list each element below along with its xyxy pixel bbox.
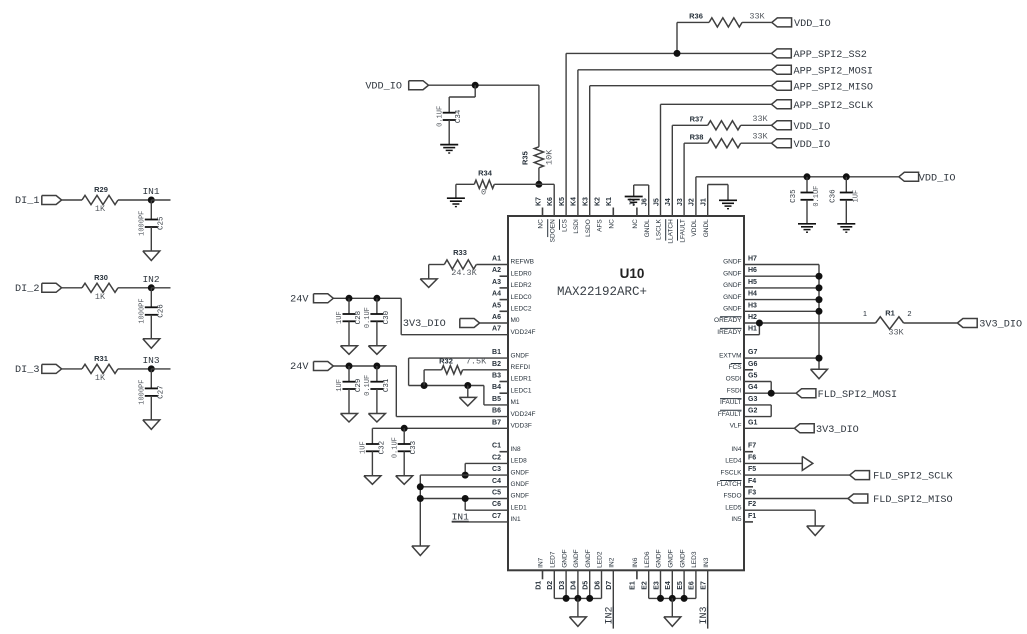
svg-text:D6: D6 (594, 581, 601, 590)
svg-text:F7: F7 (748, 443, 756, 450)
junction E4 (669, 595, 676, 602)
ground (field) C-bus (412, 546, 429, 556)
svg-text:F1: F1 (748, 513, 756, 520)
ground (field) below C26 (143, 315, 160, 349)
svg-text:33K: 33K (752, 132, 768, 142)
wire H7 GNDF (744, 265, 819, 370)
junction C33 (401, 425, 408, 432)
wire D6 down (601, 570, 603, 598)
svg-text:GNDF: GNDF (573, 549, 580, 567)
svg-text:SDOEN: SDOEN (550, 219, 557, 242)
junction C28 (346, 295, 353, 302)
svg-text:3V3_DIO: 3V3_DIO (816, 425, 859, 436)
pin A1 REFWB (492, 256, 534, 266)
svg-text:IN7: IN7 (538, 557, 545, 568)
svg-text:AFS: AFS (597, 219, 604, 232)
flag FLD_SPI2_SCLK (850, 471, 954, 483)
svg-text:1000PF: 1000PF (139, 298, 147, 323)
wire B1 GNDF to gnd net (409, 358, 508, 385)
flag VDD_IO (R38) (772, 139, 831, 151)
svg-text:VDD24F: VDD24F (511, 329, 536, 336)
pin D6 LED2 (594, 551, 603, 590)
pin J4 LLATCH (665, 198, 674, 244)
svg-text:G4: G4 (748, 384, 757, 391)
svg-text:1000PF: 1000PF (139, 211, 147, 236)
wire D2 down (553, 570, 555, 598)
wire G7 EXTVM (744, 357, 819, 359)
svg-text:K1: K1 (606, 197, 613, 206)
svg-text:C2: C2 (492, 454, 501, 461)
wire R36 to SS2 net (676, 22, 678, 53)
flag APP_SPI2_SCLK (772, 100, 874, 112)
svg-text:FLD_SPI2_SCLK: FLD_SPI2_SCLK (873, 472, 953, 483)
ground (field) E group (664, 598, 681, 626)
svg-text:H7: H7 (748, 256, 757, 263)
svg-text:R37: R37 (690, 114, 704, 123)
pin C3 GNDF (492, 466, 529, 476)
svg-text:C36: C36 (829, 189, 837, 203)
wire R31 to node IN3 (118, 368, 151, 370)
svg-text:H5: H5 (748, 279, 757, 286)
pin G3 IFAULT (720, 396, 758, 406)
junction gnd stem (464, 382, 471, 389)
svg-text:H1: H1 (748, 326, 757, 333)
svg-text:MAX22192ARC+: MAX22192ARC+ (557, 285, 647, 299)
wire E2 down (648, 570, 650, 598)
pin K6 SDOEN (547, 197, 556, 242)
pin D5 GNDF (583, 549, 592, 589)
svg-text:GNDF: GNDF (511, 469, 529, 476)
wire E6 down (695, 570, 697, 598)
svg-text:A4: A4 (492, 291, 501, 298)
svg-text:B5: B5 (492, 396, 501, 403)
svg-text:J2: J2 (689, 198, 696, 206)
svg-text:10K: 10K (545, 149, 555, 165)
wire R37 to pin (671, 125, 673, 216)
svg-text:G7: G7 (748, 349, 757, 356)
wire D3 down (565, 570, 567, 598)
svg-text:U10: U10 (620, 266, 645, 281)
svg-text:3V3_DIO: 3V3_DIO (403, 319, 446, 330)
svg-text:E2: E2 (642, 581, 649, 590)
svg-text:FLD_SPI2_MOSI: FLD_SPI2_MOSI (818, 390, 897, 401)
flag FLD_SPI2_MISO (848, 494, 953, 506)
pin C7 IN1 (492, 513, 521, 523)
svg-text:C1: C1 (492, 443, 501, 450)
wire B7 VDD3F (372, 427, 508, 429)
junction D4 (574, 595, 581, 602)
capacitor C26 1000PF (139, 288, 166, 324)
svg-text:G2: G2 (748, 408, 757, 415)
svg-text:C5: C5 (492, 490, 501, 497)
junction OREADY/IREADY (756, 320, 763, 327)
wire APP_SPI2_SS2 (566, 53, 771, 216)
pin A6 M0 (492, 314, 520, 324)
pin C1 IN8 (492, 443, 521, 453)
pin F1 IN5 (731, 513, 756, 523)
junction C31 (373, 363, 380, 370)
wire J1 GNDL (708, 185, 728, 217)
flag 3V3_DIO (to M0) (403, 319, 508, 331)
pin H7 GNDF (723, 256, 757, 266)
svg-text:24V: 24V (290, 295, 309, 306)
wire C3 GNDF (420, 474, 508, 476)
svg-text:GNDF: GNDF (723, 294, 741, 301)
svg-text:H2: H2 (748, 314, 757, 321)
svg-text:LEDR2: LEDR2 (511, 282, 532, 289)
resistor R37 33K (672, 114, 771, 130)
svg-text:VDD_IO: VDD_IO (365, 82, 402, 93)
svg-text:F2: F2 (748, 501, 756, 508)
pin K4 LSDI (571, 197, 580, 234)
svg-text:GNDF: GNDF (723, 306, 741, 313)
capacitor C27 1000PF (139, 369, 166, 405)
svg-text:R29: R29 (94, 185, 108, 194)
junction C5 (417, 495, 424, 502)
svg-text:DI_3: DI_3 (15, 365, 39, 376)
junction C29 (346, 363, 353, 370)
junction C30 (373, 295, 380, 302)
capacitor C28 1UF (336, 298, 363, 324)
chip U10 body (508, 216, 744, 570)
wire J6 GNDL (634, 185, 649, 216)
svg-text:J5: J5 (653, 198, 660, 206)
svg-text:IFAULT: IFAULT (720, 399, 742, 406)
svg-text:LED8: LED8 (511, 458, 528, 465)
junction D3 (563, 595, 570, 602)
junction G7 (816, 355, 823, 362)
svg-text:IN6: IN6 (632, 557, 639, 568)
svg-text:LED2: LED2 (597, 551, 604, 568)
ground (field) on B-net (459, 386, 476, 406)
svg-text:A5: A5 (492, 302, 501, 309)
pin K2 AFS (594, 197, 603, 232)
capacitor C25 1000PF (139, 200, 166, 236)
pin F3 FSDO (723, 490, 756, 500)
svg-text:R32: R32 (439, 356, 453, 365)
wire H6 GNDF (744, 275, 819, 277)
svg-text:C34: C34 (455, 109, 463, 123)
svg-text:D1: D1 (535, 581, 542, 590)
svg-text:C35: C35 (790, 189, 798, 203)
wire D5 down (589, 570, 591, 598)
junction H5 (816, 284, 823, 291)
pin F6 LED4 (725, 454, 756, 464)
resistor R32 7.5K (424, 356, 508, 385)
pin E4 GNDF (665, 549, 674, 589)
svg-text:1UF: 1UF (360, 441, 368, 454)
svg-text:H3: H3 (748, 302, 757, 309)
svg-text:D2: D2 (547, 581, 554, 590)
svg-text:IREADY: IREADY (717, 329, 742, 336)
pin J7 NC (630, 198, 639, 228)
svg-text:D4: D4 (571, 581, 578, 590)
svg-text:GNDF: GNDF (511, 352, 529, 359)
svg-text:APP_SPI2_MOSI: APP_SPI2_MOSI (794, 66, 873, 77)
ground (field) GNDF bus (811, 369, 828, 379)
svg-text:0.1UF: 0.1UF (364, 307, 372, 328)
ground (field) below C25 (143, 227, 160, 261)
svg-text:A7: A7 (492, 326, 501, 333)
junction FSDI (768, 390, 775, 397)
wire VDD_IO to R35 (429, 84, 539, 86)
flag 24V (24V rail 2) (290, 362, 333, 374)
svg-text:GNDF: GNDF (511, 481, 529, 488)
svg-text:0.1UF: 0.1UF (391, 437, 399, 458)
flag APP_SPI2_MISO (772, 81, 873, 93)
svg-text:DI_2: DI_2 (15, 284, 39, 295)
pin K7 NC (535, 197, 544, 229)
ground (field) below C29 (341, 389, 358, 422)
wire OSDI (744, 382, 771, 394)
svg-text:GNDF: GNDF (723, 259, 741, 266)
pin G6 FCS (729, 361, 758, 371)
capacitor C32 1UF (360, 428, 387, 454)
wire FSDI (744, 392, 796, 394)
wire VDDL rail (696, 177, 899, 216)
svg-text:33K: 33K (752, 114, 768, 124)
pin J5 LSCLK (653, 198, 662, 240)
svg-text:GNDF: GNDF (668, 549, 675, 567)
svg-text:C4: C4 (492, 478, 501, 485)
svg-text:LEDC1: LEDC1 (511, 387, 532, 394)
flag DI_2 (15, 283, 62, 295)
wire APP_SPI2_MISO (590, 86, 772, 216)
ground (field) D group (569, 598, 586, 626)
svg-text:IN2: IN2 (609, 557, 616, 568)
capacitor C36 1UF (829, 177, 860, 203)
svg-text:G6: G6 (748, 361, 757, 368)
pin G4 FSDI (727, 384, 758, 394)
pin D2 LED7 (547, 551, 556, 590)
svg-text:LED4: LED4 (725, 458, 742, 465)
svg-text:IN1: IN1 (511, 516, 522, 523)
svg-text:D7: D7 (606, 581, 613, 590)
chip U10 part number MAX22192ARC+ (557, 285, 647, 299)
svg-text:1000PF: 1000PF (139, 380, 147, 405)
off-page arrow LED4 (802, 456, 813, 470)
svg-text:A3: A3 (492, 279, 501, 286)
wire C2 LED8 down (465, 463, 508, 475)
pin K1 NC (606, 197, 615, 229)
svg-text:B6: B6 (492, 408, 501, 415)
wire R38 to pin (683, 143, 685, 216)
svg-text:LEDC2: LEDC2 (511, 306, 532, 313)
junction R32-left (421, 382, 428, 389)
svg-text:E6: E6 (689, 581, 696, 590)
svg-text:VDD_IO: VDD_IO (794, 122, 831, 133)
svg-text:C29: C29 (355, 379, 363, 393)
ground (earth) J6 (625, 197, 643, 205)
svg-text:LED3: LED3 (691, 551, 698, 568)
flag 3V3_DIO (VLF) (744, 424, 859, 436)
wire FSDO (744, 498, 848, 500)
svg-text:3V3_DIO: 3V3_DIO (979, 320, 1022, 331)
wire LED4 (744, 462, 802, 464)
pin H6 GNDF (723, 267, 757, 277)
flag APP_SPI2_SS2 (772, 49, 867, 61)
svg-text:F3: F3 (748, 490, 756, 497)
junction D5 (586, 595, 593, 602)
wire D bus (554, 597, 601, 599)
flag APP_SPI2_MOSI (772, 65, 873, 77)
svg-text:VDD_IO: VDD_IO (794, 140, 831, 151)
svg-text:IN1: IN1 (142, 186, 159, 197)
ground (field) below C27 (143, 396, 160, 430)
svg-text:VDD24F: VDD24F (511, 411, 536, 418)
pin D7 IN2 (606, 557, 615, 590)
chip U10 refdes (620, 266, 645, 281)
svg-text:J4: J4 (665, 198, 672, 206)
node IN3 junction (142, 355, 170, 373)
capacitor C31 0.1UF (364, 366, 391, 396)
svg-text:0.1UF: 0.1UF (436, 106, 444, 127)
svg-text:K5: K5 (559, 197, 566, 206)
svg-text:FSCLK: FSCLK (721, 469, 743, 476)
svg-text:R31: R31 (94, 354, 108, 363)
svg-text:G5: G5 (748, 373, 757, 380)
svg-text:D5: D5 (583, 581, 590, 590)
wire E bus (649, 597, 696, 599)
svg-text:DI_1: DI_1 (15, 196, 39, 207)
svg-text:B4: B4 (492, 384, 501, 391)
svg-text:0.1UF: 0.1UF (813, 186, 821, 207)
junction E5 (681, 595, 688, 602)
wire D4 down (577, 570, 579, 598)
svg-text:G1: G1 (748, 419, 757, 426)
svg-text:OREADY: OREADY (714, 317, 742, 324)
wire to B5 M1 (484, 386, 508, 405)
svg-text:VDD_IO: VDD_IO (794, 19, 831, 30)
junction on C3 (462, 472, 469, 479)
pin E7 IN3 (701, 557, 710, 590)
svg-text:E1: E1 (630, 581, 637, 590)
wire C34 jog (449, 85, 475, 97)
svg-text:IN3: IN3 (703, 557, 710, 568)
svg-text:F4: F4 (748, 478, 756, 485)
svg-text:33K: 33K (888, 328, 904, 338)
flag VDD_IO (R36) (772, 18, 831, 30)
pin G2 FFAULT (718, 408, 758, 418)
svg-text:C30: C30 (383, 310, 391, 324)
svg-text:GNDF: GNDF (511, 493, 529, 500)
svg-text:IN2: IN2 (605, 606, 616, 624)
wire C4 GNDF (420, 486, 508, 488)
wire R30 to node IN2 (118, 287, 151, 289)
pin H2 OREADY (714, 314, 757, 324)
svg-text:M1: M1 (511, 399, 520, 406)
svg-text:J3: J3 (677, 198, 684, 206)
svg-text:7.5K: 7.5K (466, 356, 487, 366)
svg-text:C28: C28 (355, 311, 363, 325)
svg-text:0: 0 (481, 188, 486, 198)
svg-text:GNDF: GNDF (561, 549, 568, 567)
svg-text:C25: C25 (157, 216, 165, 230)
svg-text:R36: R36 (689, 12, 703, 21)
svg-text:LED1: LED1 (511, 504, 528, 511)
wire C5 GNDF (420, 498, 508, 500)
ground (earth) J1 (719, 200, 737, 208)
svg-text:1K: 1K (95, 204, 106, 214)
wire junction to K6 SDOEN (539, 184, 554, 216)
pin B3 LEDR1 (492, 373, 532, 383)
svg-text:LEDC0: LEDC0 (511, 294, 532, 301)
svg-text:OSDI: OSDI (726, 376, 742, 383)
wire 24V rail 2 (333, 366, 508, 417)
svg-text:C3: C3 (492, 466, 501, 473)
flag DI_1 (15, 196, 62, 208)
svg-text:F6: F6 (748, 454, 756, 461)
svg-text:K6: K6 (547, 197, 554, 206)
ground (field) below C33 (396, 451, 413, 484)
svg-text:C26: C26 (157, 304, 165, 318)
wire DI_3 to R31 (62, 368, 82, 370)
svg-text:J6: J6 (642, 198, 649, 206)
pin J2 VDDL (689, 198, 698, 236)
pin C2 LED8 (492, 454, 527, 464)
pin F7 IN4 (731, 443, 756, 453)
resistor R34 0 (456, 169, 539, 198)
svg-text:1UF: 1UF (336, 379, 344, 392)
ground (field) below C32 (364, 451, 381, 484)
resistor R29 1K (82, 185, 118, 214)
pin E5 GNDF (677, 549, 686, 589)
pin K3 LSDO (583, 197, 592, 237)
wire IFAULT-FFAULT (744, 405, 771, 417)
resistor R35 10K (521, 85, 555, 184)
svg-text:33K: 33K (749, 12, 765, 22)
flag FLD_SPI2_MOSI (796, 389, 897, 401)
pin J6 GNDL (642, 198, 651, 237)
pin C5 GNDF (492, 490, 529, 500)
ground (field) below C31 (368, 389, 385, 422)
pin A4 LEDC0 (492, 291, 532, 301)
svg-text:1K: 1K (95, 292, 106, 302)
flag VDD_IO (R37) (772, 121, 831, 133)
svg-text:VDD_IO: VDD_IO (919, 173, 956, 184)
wire R29 to node IN1 (118, 199, 151, 201)
svg-text:C6: C6 (492, 501, 501, 508)
wire IREADY to OREADY (744, 323, 759, 335)
svg-text:LSCLK: LSCLK (656, 219, 663, 240)
pin D4 GNDF (571, 549, 580, 589)
wire 24V rail 1 (333, 298, 508, 334)
svg-text:R33: R33 (453, 248, 467, 257)
svg-text:F5: F5 (748, 466, 756, 473)
svg-text:B7: B7 (492, 419, 501, 426)
svg-text:1: 1 (863, 309, 867, 318)
svg-text:K7: K7 (535, 197, 542, 206)
svg-text:FLD_SPI2_MISO: FLD_SPI2_MISO (873, 495, 952, 506)
capacitor C34 0.1UF (436, 97, 463, 127)
junction C35 (804, 173, 811, 180)
svg-text:FFAULT: FFAULT (718, 411, 742, 418)
svg-text:APP_SPI2_SCLK: APP_SPI2_SCLK (794, 101, 874, 112)
junction H4 (816, 296, 823, 303)
flag DI_3 (15, 364, 62, 376)
svg-text:GNDF: GNDF (656, 549, 663, 567)
wire H3 GNDF (744, 310, 819, 312)
wire C6 LED1 up (465, 499, 508, 511)
junction R35/R34 (535, 181, 542, 188)
svg-text:C31: C31 (383, 378, 391, 392)
svg-text:LEDR1: LEDR1 (511, 376, 532, 383)
flag 24V (24V rail 1) (290, 294, 333, 306)
ground (field) below R33 (420, 265, 437, 288)
pin C4 GNDF (492, 478, 529, 488)
wire FSCLK (744, 474, 850, 476)
flag VDD_IO (top left) (365, 81, 428, 93)
